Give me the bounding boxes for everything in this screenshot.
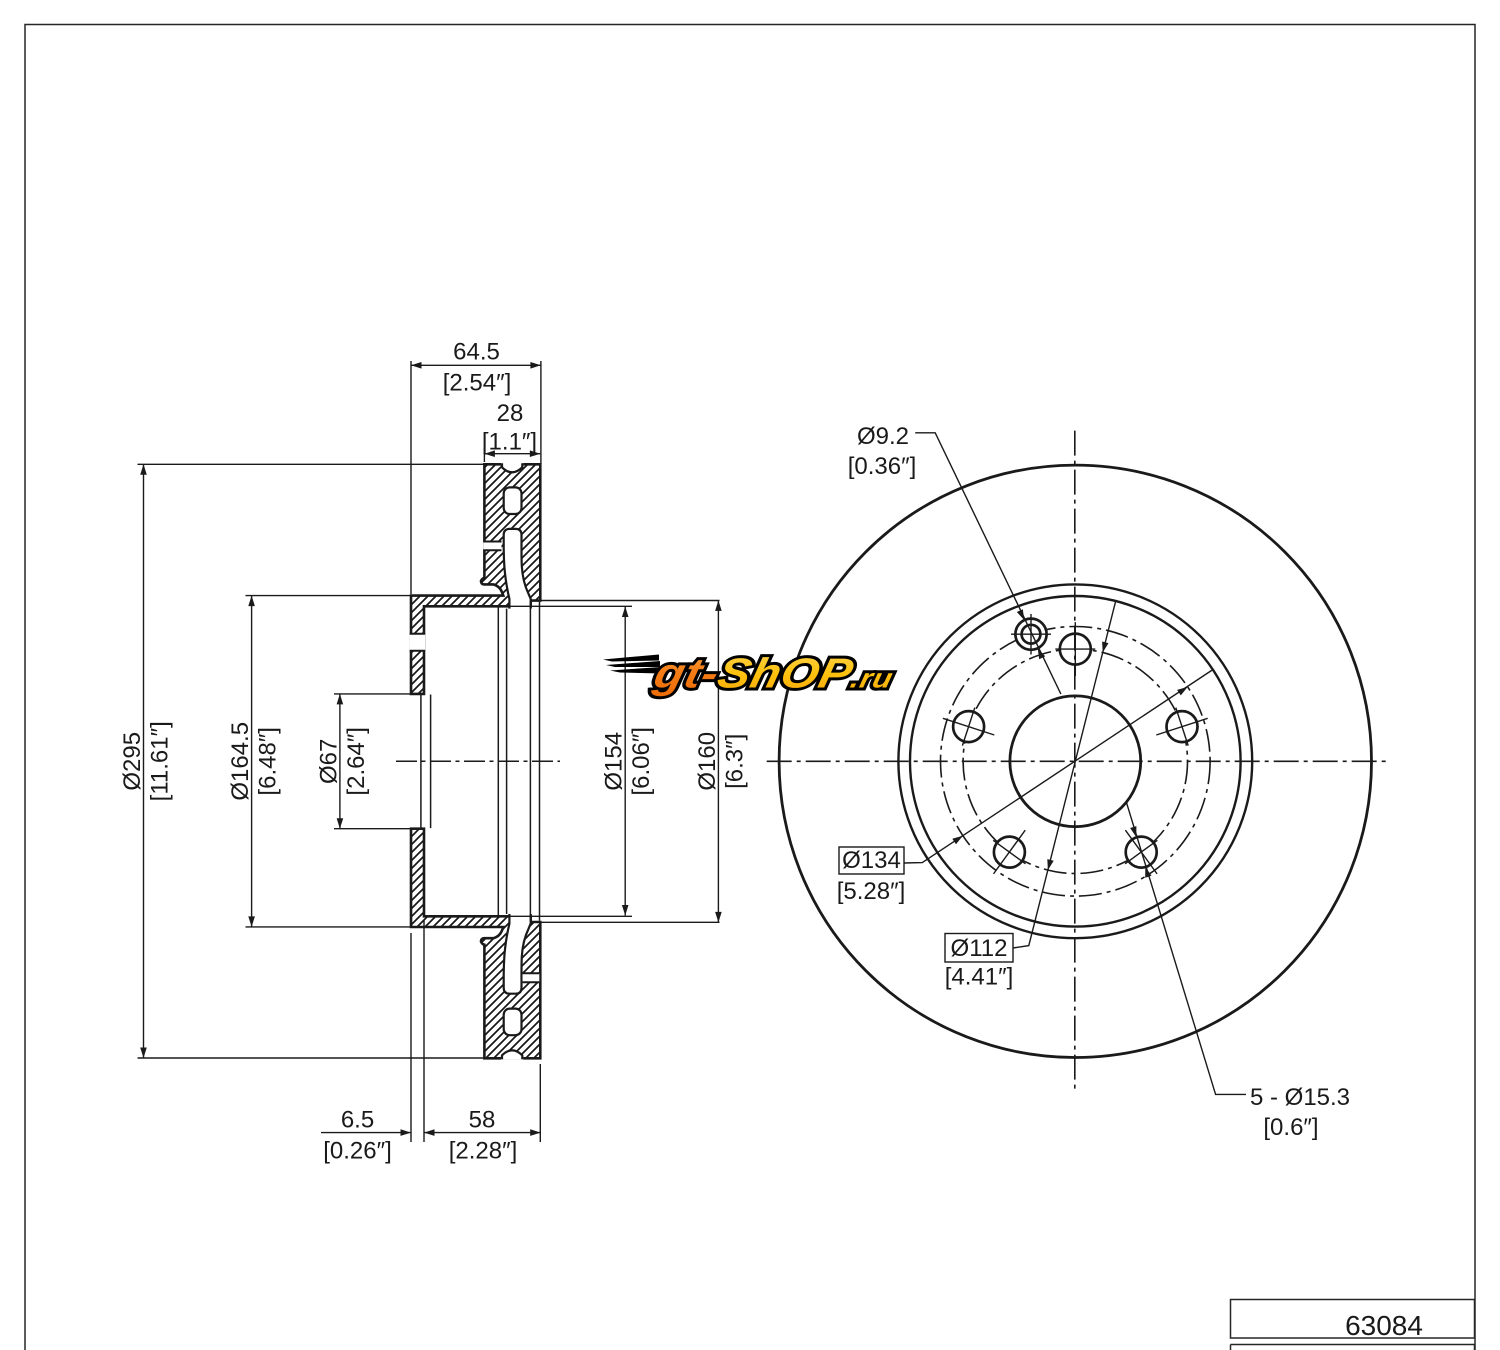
svg-text:[0.6″]: [0.6″] (1263, 1114, 1318, 1141)
pin hole center marks (1011, 614, 1051, 655)
bolt hole upper-right (1167, 711, 1198, 742)
vent hole V2 lower + inlet channel (504, 914, 531, 994)
DIMS-LEFT (138, 361, 720, 1142)
title block second row (1231, 1345, 1475, 1350)
svg-text:[6.06″]: [6.06″] (628, 727, 655, 796)
hub cavity background edge lines (497, 608, 499, 916)
svg-text:[4.41″]: [4.41″] (945, 964, 1014, 991)
outer diameter circle (779, 465, 1371, 1057)
svg-text:[0.26″]: [0.26″] (323, 1138, 392, 1165)
vertical centerline (1074, 431, 1076, 1092)
svg-text:[6.48″]: [6.48″] (255, 727, 282, 796)
LOGO (603, 650, 899, 697)
svg-text:Ø154: Ø154 (601, 732, 628, 791)
svg-text:Ø67: Ø67 (315, 739, 342, 784)
bore chamfer background edges (420, 695, 422, 829)
svg-text:Ø134: Ø134 (842, 847, 901, 874)
centerline of section (396, 760, 560, 762)
leader D134 (904, 670, 1213, 864)
svg-text:58: 58 (469, 1107, 496, 1134)
svg-text:63084: 63084 (1345, 1310, 1423, 1341)
extension lines (410, 361, 412, 594)
bolt hole notch in hat wall (410, 634, 426, 651)
vent hole V1 upper (504, 487, 522, 514)
svg-text:[5.28″]: [5.28″] (837, 878, 906, 905)
rotor section lower half (hatched) (411, 829, 540, 1059)
bolt circle D134 (dash-dot) (941, 627, 1211, 897)
bolt circle D112 (dash-dot) (963, 649, 1187, 873)
horizontal centerline (767, 760, 1389, 762)
drilled hole notch in lower right plate (523, 973, 540, 982)
vent slot bottom notch (501, 1050, 523, 1059)
svg-text:6.5: 6.5 (341, 1107, 374, 1134)
title block box (1231, 1300, 1475, 1339)
svg-text:Ø295: Ø295 (119, 732, 146, 791)
bolt hole lower-left (994, 837, 1025, 868)
leader 5-D15.3 (1126, 801, 1246, 1094)
svg-text:[2.64″]: [2.64″] (343, 727, 370, 796)
dimension lines (411, 364, 541, 366)
svg-text:[2.54″]: [2.54″] (443, 370, 512, 397)
svg-text:Ø164.5: Ø164.5 (227, 722, 254, 801)
leader D112 (1013, 601, 1116, 948)
leader arrowheads (1017, 609, 1025, 620)
svg-text:Ø160: Ø160 (694, 732, 721, 791)
dimension arrowheads (411, 362, 422, 369)
svg-text:[11.61″]: [11.61″] (147, 721, 174, 801)
center bore D67 (1010, 696, 1141, 827)
svg-text:Ø9.2: Ø9.2 (857, 423, 909, 450)
SECTION-VIEW (410, 463, 541, 1060)
svg-text:5 - Ø15.3: 5 - Ø15.3 (1250, 1084, 1350, 1111)
label box D134 (839, 847, 904, 874)
locating pin hole D9.2 (1022, 625, 1041, 644)
bolt hole top (1060, 634, 1091, 665)
rotor section upper half (hatched) (411, 464, 540, 694)
logo speed streaks (603, 655, 659, 662)
bolt hole center marks (1055, 622, 1095, 676)
svg-text:28: 28 (497, 400, 524, 427)
hat flange circle (910, 596, 1241, 927)
locating pin hole outer (1015, 619, 1046, 650)
label box D112 (945, 934, 1013, 963)
svg-text:[1.1″]: [1.1″] (482, 429, 537, 456)
drilled hole notch in upper left plate (483, 542, 501, 551)
bolt hole upper-left (953, 711, 984, 742)
friction band inner circle (898, 584, 1252, 938)
vent hole V2 upper + inlet channel (504, 529, 531, 609)
svg-text:[0.36″]: [0.36″] (848, 453, 917, 480)
logo text gt-shop.ru (649, 650, 899, 697)
vent hole V1 lower (504, 1009, 522, 1036)
bolt hole lower-right (1126, 837, 1157, 868)
svg-text:64.5: 64.5 (453, 338, 500, 365)
svg-text:Ø112: Ø112 (951, 935, 1008, 962)
svg-text:[6.3″]: [6.3″] (721, 734, 748, 789)
leader D9.2 (915, 433, 1061, 694)
svg-text:[2.28″]: [2.28″] (449, 1138, 518, 1165)
vent slot top notch (501, 463, 523, 472)
